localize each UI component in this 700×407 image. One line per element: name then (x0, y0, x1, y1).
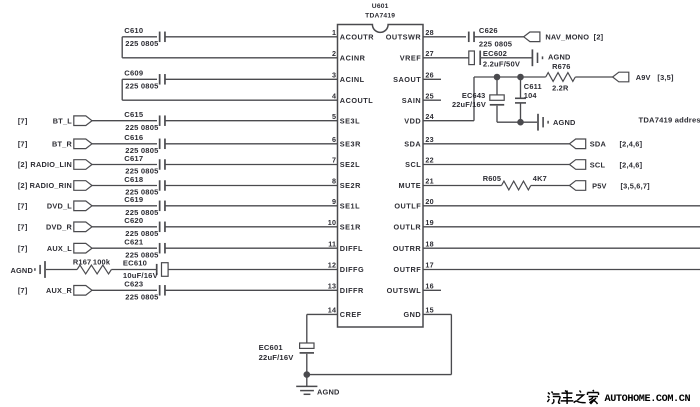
wire R605 to P5V (531, 185, 570, 187)
wire stub to ground (306, 375, 308, 387)
svg-text:VDD: VDD (404, 116, 421, 125)
wire EC610 to pin 12 (168, 269, 337, 271)
svg-text:2: 2 (332, 49, 336, 58)
pin 25 SAIN (402, 91, 434, 105)
svg-text:EC610: EC610 (123, 259, 147, 268)
wire C617 to pin 7 (165, 164, 338, 166)
svg-text:18: 18 (425, 239, 433, 248)
svg-text:4K7: 4K7 (533, 174, 547, 183)
capacitor C610 (160, 32, 165, 43)
svg-text:15: 15 (425, 306, 433, 315)
svg-text:2.2R: 2.2R (552, 83, 569, 92)
svg-text:13: 13 (328, 282, 336, 291)
pin 10 SE1R (328, 218, 361, 232)
svg-text:[7]: [7] (18, 286, 28, 295)
wire rail to C611 (520, 77, 522, 98)
wire pin 20 OUTLF to edge (423, 205, 700, 207)
capacitor C620 (160, 222, 165, 233)
wire power rail (474, 76, 546, 78)
svg-text:AGND: AGND (553, 118, 576, 127)
pin 24 VDD (404, 112, 434, 126)
wire C621 to pin 11 (165, 247, 338, 249)
wire C619 to pin 9 (165, 205, 338, 207)
svg-text:C620: C620 (124, 216, 143, 225)
pin 22 SCL (405, 156, 434, 170)
svg-text:[2]: [2] (18, 160, 28, 169)
svg-text:U601: U601 (372, 3, 389, 10)
pin stub 26 (423, 78, 441, 80)
wire EC602 to AGND (481, 57, 532, 59)
svg-text:19: 19 (425, 218, 433, 227)
wire EC643 to ground rail (496, 106, 498, 123)
wire pin 23 SDA (423, 143, 570, 145)
svg-text:C610: C610 (124, 26, 143, 35)
pin 4 ACOUTL (332, 91, 373, 105)
capacitor C626 (469, 32, 474, 43)
svg-text:SAOUT: SAOUT (393, 75, 421, 84)
wire riser up (450, 314, 452, 374)
pin 26 SAOUT (393, 71, 434, 85)
svg-text:C619: C619 (124, 195, 143, 204)
svg-text:TDA7419: TDA7419 (365, 13, 395, 20)
pin 18 OUTRR (393, 239, 434, 253)
wire AGND to R167 (46, 269, 77, 271)
capacitor C617 (160, 159, 165, 170)
svg-text:[7]: [7] (18, 201, 28, 210)
svg-text:225 0805: 225 0805 (125, 82, 159, 91)
svg-text:SCL: SCL (590, 160, 606, 169)
connector SCL (570, 160, 586, 170)
svg-text:22uF/16V: 22uF/16V (452, 100, 486, 109)
svg-text:OUTSWL: OUTSWL (387, 286, 422, 295)
svg-text:EC601: EC601 (259, 343, 284, 352)
junction (517, 74, 524, 81)
connector SDA (570, 139, 586, 149)
svg-text:225 0805: 225 0805 (125, 39, 159, 48)
svg-text:12: 12 (328, 261, 336, 270)
ground AGND earth symbol (296, 386, 317, 394)
wire pin 14 CREF (307, 313, 338, 315)
svg-text:[2,4,6]: [2,4,6] (620, 160, 643, 169)
svg-text:DIFFL: DIFFL (340, 244, 363, 253)
pin 12 DIFFG (328, 261, 364, 275)
wire pin 28 to C626 (423, 36, 466, 38)
capacitor C623 (160, 285, 165, 296)
svg-text:EC602: EC602 (483, 49, 507, 58)
svg-text:14: 14 (328, 306, 336, 315)
wire C616 to pin 6 (165, 143, 338, 145)
svg-text:2.2uF/50V: 2.2uF/50V (483, 59, 521, 68)
svg-text:225 0805: 225 0805 (125, 293, 159, 302)
svg-text:DVD_R: DVD_R (46, 222, 72, 231)
svg-text:ACOUTL: ACOUTL (340, 96, 373, 105)
pin 7 SE2L (332, 156, 360, 170)
svg-text:C621: C621 (124, 238, 144, 247)
svg-text:TDA7419 addresss: TDA7419 addresss (639, 116, 700, 125)
wire VDD riser (473, 77, 475, 121)
svg-text:5: 5 (332, 112, 336, 121)
junction (304, 371, 311, 378)
svg-text:10: 10 (328, 218, 336, 227)
svg-text:23: 23 (425, 135, 433, 144)
connector P5V (570, 181, 586, 191)
capacitor C618 (160, 180, 165, 191)
resistor R676 (546, 73, 576, 82)
capacitor EC602 (469, 51, 480, 65)
connector RADIO_RIN (74, 181, 92, 191)
svg-text:[7]: [7] (18, 244, 28, 253)
svg-text:A9V [3,5]: A9V [3,5] (636, 73, 674, 82)
wire C609 left plate to corner (122, 78, 157, 80)
svg-text:SE1R: SE1R (340, 223, 361, 232)
pin 23 SDA (404, 135, 434, 149)
wire C618 to pin 8 (165, 185, 338, 187)
svg-text:EC643: EC643 (462, 91, 486, 100)
svg-text:BT_L: BT_L (53, 116, 73, 125)
capacitor EC643 (490, 95, 504, 105)
svg-text:R167: R167 (73, 257, 91, 266)
pin 3 ACINL (332, 71, 365, 85)
wire loop down (121, 79, 123, 100)
pin 5 SE3L (332, 112, 360, 126)
svg-text:P5V: P5V (592, 182, 607, 191)
wire DVD_R to C620 (92, 226, 157, 228)
svg-text:4: 4 (332, 91, 336, 100)
connector RADIO_LIN (74, 160, 92, 170)
connector BT_R (74, 139, 92, 149)
svg-text:ACINR: ACINR (340, 54, 366, 63)
svg-text:[7]: [7] (18, 139, 28, 148)
svg-text:104: 104 (524, 91, 538, 100)
wire pin 24 VDD (423, 120, 474, 122)
svg-text:28: 28 (425, 28, 433, 37)
svg-text:C611: C611 (524, 82, 542, 91)
junction (517, 119, 524, 126)
svg-text:SE3L: SE3L (340, 116, 360, 125)
svg-text:AGND: AGND (10, 266, 33, 275)
wire loop down (121, 37, 123, 58)
pin 6 SE3R (332, 135, 361, 149)
svg-text:AGND: AGND (317, 388, 340, 397)
svg-text:OUTRR: OUTRR (393, 244, 422, 253)
svg-text:OUTLF: OUTLF (394, 202, 421, 211)
pin 15 GND (403, 306, 433, 320)
capacitor C615 (160, 115, 165, 126)
svg-text:9: 9 (332, 197, 336, 206)
svg-text:GND: GND (403, 310, 421, 319)
svg-text:R605: R605 (483, 174, 501, 183)
svg-text:ACINL: ACINL (340, 75, 365, 84)
wire AUX_L to C621 (92, 247, 157, 249)
wire down to EC601 (306, 314, 308, 343)
power symbol AGND (538, 114, 548, 131)
pin 9 SE1L (332, 197, 360, 211)
connector A9V (613, 72, 629, 82)
svg-text:DVD_L: DVD_L (47, 201, 72, 210)
svg-text:R676: R676 (552, 62, 570, 71)
wire DVD_L to C619 (92, 205, 157, 207)
pin 20 OUTLF (394, 197, 433, 211)
pin 16 OUTSWL (387, 282, 434, 296)
wire BT_L to C615 (92, 120, 157, 122)
connector DVD_L (74, 201, 92, 211)
svg-text:225 0805: 225 0805 (479, 39, 513, 48)
capacitor C621 (160, 243, 165, 254)
power symbol AGND left (35, 261, 45, 278)
IC U601 TDA7419 body (338, 25, 424, 328)
watermark 汽车之家 (547, 392, 560, 404)
pin 21 MUTE (399, 177, 434, 191)
svg-text:11: 11 (328, 239, 336, 248)
power symbol AGND (532, 49, 542, 66)
svg-text:SE2R: SE2R (340, 181, 361, 190)
svg-text:16: 16 (425, 282, 433, 291)
wire loop to pin 2 (122, 57, 337, 59)
svg-text:25: 25 (425, 91, 433, 100)
wire RADIO_RIN to C618 (92, 185, 157, 187)
svg-text:[2]: [2] (18, 181, 28, 190)
wire ground rail to pin 15 riser (307, 374, 452, 376)
svg-text:AUTOHOME.COM.CN: AUTOHOME.COM.CN (605, 394, 691, 405)
svg-text:OUTLR: OUTLR (394, 223, 422, 232)
svg-text:22: 22 (425, 156, 433, 165)
wire C626 to NAV_MONO (474, 36, 524, 38)
connector BT_L (74, 116, 92, 126)
svg-text:DIFFR: DIFFR (340, 286, 364, 295)
wire AUX_R to C623 (92, 289, 157, 291)
wire C609 to pin 3 (165, 78, 338, 80)
svg-text:SAIN: SAIN (402, 96, 421, 105)
pin 8 SE2R (332, 177, 361, 191)
svg-text:22uF/16V: 22uF/16V (259, 353, 295, 362)
svg-text:100k: 100k (93, 257, 111, 266)
junction (494, 74, 501, 81)
svg-text:[7]: [7] (18, 116, 28, 125)
svg-text:21: 21 (425, 177, 433, 186)
wire C611 to ground rail (520, 103, 522, 122)
wire pin 27 to EC602 (423, 57, 469, 59)
svg-text:26: 26 (425, 71, 433, 80)
svg-text:AUX_L: AUX_L (47, 244, 72, 253)
capacitor C616 (160, 139, 165, 150)
wire riser to pin 15 GND (423, 313, 451, 315)
svg-text:SCL: SCL (405, 160, 421, 169)
svg-text:17: 17 (425, 261, 433, 270)
wire ground rail (497, 121, 537, 123)
svg-text:[7]: [7] (18, 222, 28, 231)
wire pin 17 OUTRF to edge (423, 269, 700, 271)
svg-text:DIFFG: DIFFG (340, 265, 364, 274)
svg-text:SE1L: SE1L (340, 202, 360, 211)
pin 19 OUTLR (394, 218, 434, 232)
svg-text:[2,4,6]: [2,4,6] (620, 140, 643, 149)
svg-text:AUX_R: AUX_R (46, 286, 72, 295)
wire BT_R to C616 (92, 143, 157, 145)
wire C610 left plate to corner (122, 36, 157, 38)
pin 14 CREF (328, 306, 362, 320)
capacitor C609 (160, 74, 165, 85)
svg-text:C618: C618 (124, 175, 143, 184)
capacitor C619 (160, 201, 165, 212)
svg-text:C616: C616 (124, 133, 143, 142)
wire rail to EC643 (496, 77, 498, 95)
wire C620 to pin 10 (165, 226, 338, 228)
svg-text:6: 6 (332, 135, 336, 144)
wire C610 to pin 1 (165, 36, 338, 38)
wire R167 to EC610 (111, 269, 156, 271)
wire RADIO_LIN to C617 (92, 164, 157, 166)
pin stub 16 (423, 289, 441, 291)
svg-text:AGND: AGND (548, 52, 571, 61)
svg-text:24: 24 (425, 112, 433, 121)
wire pin 21 to R605 (423, 185, 502, 187)
svg-text:NAV_MONO [2]: NAV_MONO [2] (545, 33, 603, 42)
wire pin 18 OUTRR to edge (423, 247, 700, 249)
pin 1 ACOUTR (332, 28, 374, 42)
svg-text:20: 20 (425, 197, 433, 206)
svg-text:7: 7 (332, 156, 336, 165)
wire loop to pin 4 (122, 99, 337, 101)
svg-text:C623: C623 (124, 280, 143, 289)
svg-text:RADIO_LIN: RADIO_LIN (30, 160, 72, 169)
svg-text:C617: C617 (124, 154, 143, 163)
resistor R605 (502, 181, 531, 190)
pin 13 DIFFR (328, 282, 364, 296)
wire R676 to A9V (575, 76, 612, 78)
svg-text:SE2L: SE2L (340, 160, 360, 169)
pin 2 ACINR (332, 49, 366, 63)
wire pin 19 OUTLR to edge (423, 226, 700, 228)
svg-text:SE3R: SE3R (340, 140, 361, 149)
wire C623 to pin 13 (165, 289, 338, 291)
capacitor EC601 (300, 343, 314, 353)
svg-text:C626: C626 (479, 26, 498, 35)
svg-text:C609: C609 (124, 69, 143, 78)
svg-text:SDA: SDA (590, 140, 607, 149)
pin 11 DIFFL (328, 239, 363, 253)
connector AUX_L (74, 243, 92, 253)
capacitor C611 (515, 98, 526, 103)
svg-text:3: 3 (332, 71, 336, 80)
svg-text:1: 1 (332, 28, 336, 37)
svg-text:225 0805: 225 0805 (125, 123, 159, 132)
svg-text:BT_R: BT_R (52, 139, 73, 148)
pin stub 25 (423, 99, 441, 101)
svg-text:MUTE: MUTE (399, 181, 422, 190)
svg-text:27: 27 (425, 49, 433, 58)
svg-text:8: 8 (332, 177, 336, 186)
svg-text:[3,5,6,7]: [3,5,6,7] (621, 181, 651, 190)
wire pin 22 SCL (423, 164, 570, 166)
svg-text:C615: C615 (124, 110, 144, 119)
svg-text:VREF: VREF (400, 54, 422, 63)
pin 28 OUTSWR (386, 28, 434, 42)
svg-text:OUTRF: OUTRF (394, 265, 422, 274)
svg-text:OUTSWR: OUTSWR (386, 33, 422, 42)
svg-text:SDA: SDA (404, 140, 421, 149)
resistor R167 (77, 265, 111, 274)
pin 17 OUTRF (394, 261, 434, 275)
svg-text:CREF: CREF (340, 310, 362, 319)
svg-text:10uF/16V: 10uF/16V (123, 271, 159, 280)
svg-text:ACOUTR: ACOUTR (340, 33, 374, 42)
wire EC601 to ground rail (306, 354, 308, 375)
svg-text:RADIO_RIN: RADIO_RIN (30, 181, 72, 190)
capacitor EC610 (157, 263, 168, 277)
connector DVD_R (74, 222, 92, 232)
wire C615 to pin 5 (165, 120, 338, 122)
connector NAV_MONO (524, 32, 540, 42)
pin 27 VREF (400, 49, 434, 63)
connector AUX_R (74, 286, 92, 296)
